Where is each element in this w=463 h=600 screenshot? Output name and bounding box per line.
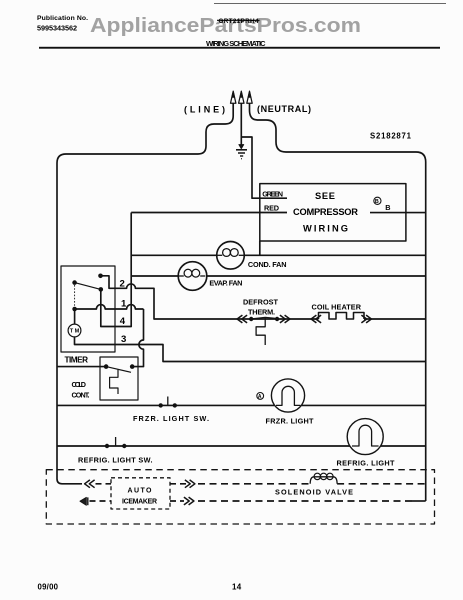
svg-text:SEE: SEE	[315, 191, 336, 201]
svg-text:ICEMAKER: ICEMAKER	[122, 498, 157, 505]
svg-text:B: B	[385, 203, 390, 212]
svg-text:EVAP. FAN: EVAP. FAN	[209, 278, 242, 287]
svg-text:FRZR. LIGHT: FRZR. LIGHT	[266, 417, 315, 426]
svg-text:(NEUTRAL): (NEUTRAL)	[257, 104, 311, 114]
svg-text:COLD: COLD	[72, 380, 87, 389]
svg-text:COIL HEATER: COIL HEATER	[312, 302, 362, 311]
svg-text:B: B	[375, 199, 379, 205]
svg-text:Publication No.: Publication No.	[37, 15, 88, 22]
svg-text:CONT.: CONT.	[72, 390, 90, 399]
svg-text:GREEN: GREEN	[262, 189, 283, 198]
svg-text:WIRING SCHEMATIC: WIRING SCHEMATIC	[206, 39, 266, 48]
svg-text:AUTO: AUTO	[128, 487, 153, 494]
svg-text:5995343562: 5995343562	[37, 24, 77, 33]
svg-text:3: 3	[121, 334, 126, 345]
svg-text:COND. FAN: COND. FAN	[248, 260, 287, 269]
svg-text:A: A	[258, 394, 262, 400]
svg-text:COMPRESSOR: COMPRESSOR	[293, 207, 358, 217]
svg-text:REFRIG. LIGHT SW.: REFRIG. LIGHT SW.	[78, 455, 153, 464]
svg-text:RED: RED	[264, 203, 279, 212]
svg-text:(LINE): (LINE)	[184, 105, 225, 115]
svg-text:2: 2	[120, 279, 125, 290]
svg-text:WIRING: WIRING	[303, 224, 349, 234]
svg-text:SOLENOID VALVE: SOLENOID VALVE	[275, 487, 353, 496]
svg-text:GRT21PRH4: GRT21PRH4	[219, 18, 259, 25]
svg-text:REFRIG. LIGHT: REFRIG. LIGHT	[337, 458, 396, 467]
svg-text:1: 1	[121, 298, 127, 309]
svg-text:TIMER: TIMER	[65, 356, 89, 365]
svg-text:14: 14	[232, 583, 242, 592]
svg-text:TM: TM	[70, 329, 80, 335]
svg-text:DEFROST: DEFROST	[243, 298, 279, 307]
svg-text:09/00: 09/00	[38, 582, 59, 591]
svg-text:S2182871: S2182871	[370, 132, 412, 141]
svg-text:FRZR. LIGHT SW.: FRZR. LIGHT SW.	[133, 414, 209, 423]
svg-text:THERM.: THERM.	[248, 308, 275, 317]
svg-text:4: 4	[120, 316, 126, 327]
